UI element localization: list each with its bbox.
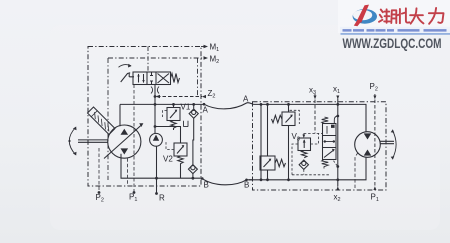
charge pump bbox=[150, 133, 163, 146]
svg-text:V2: V2 bbox=[163, 155, 173, 164]
svg-text:R: R bbox=[159, 194, 165, 203]
pilot x3 (dashed) bbox=[314, 94, 316, 133]
valve DV1 centre cell blocked ports bbox=[150, 72, 153, 85]
logo separator rule bbox=[341, 33, 450, 34]
bypass line bbox=[260, 104, 262, 179]
node A-charge bbox=[154, 103, 157, 106]
logo tiny contact dashes bbox=[343, 29, 447, 32]
pump rotation arc bbox=[69, 128, 75, 155]
FV bottom spring bbox=[322, 160, 329, 169]
pump variable displacement arrow bbox=[104, 125, 142, 159]
svg-text:WWW.ZGDLQC.COM: WWW.ZGDLQC.COM bbox=[343, 36, 442, 51]
pump shaft bbox=[78, 140, 108, 142]
node A-V1 bbox=[172, 103, 175, 106]
orifice on charge line bbox=[151, 87, 159, 94]
node on charge line at Z2 bbox=[154, 95, 157, 98]
M2 arrow bbox=[204, 56, 209, 59]
check valve CV2 (to B) bbox=[188, 165, 197, 174]
svg-text:B: B bbox=[204, 181, 209, 190]
check valve CV3 bbox=[299, 160, 308, 169]
RV2 spring bbox=[275, 159, 286, 166]
relief valve V1 bbox=[173, 104, 175, 107]
motor case drain (dashed) bbox=[355, 153, 358, 189]
valve DV1 lever bbox=[121, 73, 134, 82]
port M2 drain line (dash-dot) bbox=[108, 57, 206, 59]
check valve CV1 (to A) bbox=[193, 104, 195, 108]
FV middle cell through path bbox=[324, 141, 336, 143]
pilot line Z2 (dashed, arrow left) bbox=[157, 96, 202, 98]
pump case drain (dashed) bbox=[127, 158, 129, 186]
main line A inside pump unit bbox=[120, 104, 204, 126]
svg-text:B: B bbox=[244, 181, 249, 190]
node A-x1 bbox=[336, 103, 339, 106]
valve drain line to M ports (dash-dot) bbox=[147, 47, 149, 73]
logo red brush stroke bbox=[357, 5, 370, 23]
node A-RV1 bbox=[287, 103, 290, 106]
hose A bbox=[204, 103, 254, 109]
inner assembly enclosure (dash-dot) bbox=[107, 58, 109, 180]
relief valve V2 bbox=[174, 143, 187, 156]
branch to V2 bbox=[155, 127, 181, 144]
FV top cell plug mark bbox=[331, 125, 335, 128]
relief valve RV1 bbox=[282, 112, 295, 126]
flushing valve FV body bbox=[323, 124, 337, 160]
char da bbox=[410, 8, 423, 23]
node B-RV2 bbox=[266, 178, 269, 181]
node A-check bbox=[192, 103, 195, 106]
RV1 spring bbox=[272, 115, 283, 122]
V2 spring bbox=[178, 156, 183, 178]
node B-x2 bbox=[336, 178, 339, 181]
V1 drain mark bbox=[184, 121, 189, 127]
FV top spring bbox=[322, 117, 329, 123]
main line B / R line bbox=[121, 154, 202, 178]
logo D swoosh blue crescent bbox=[353, 9, 377, 24]
relief valve RV1 feed bbox=[288, 104, 290, 179]
pilot x1/x2 line bbox=[337, 99, 339, 187]
svg-text:A: A bbox=[243, 95, 249, 104]
V3 spring bbox=[302, 151, 307, 158]
V3 left pilot loop (dashed) bbox=[292, 144, 330, 175]
valve DV1 spring bbox=[171, 74, 180, 83]
relief RV2 feed bbox=[267, 104, 269, 179]
char bei bbox=[396, 8, 409, 23]
line B to motor bbox=[249, 157, 366, 180]
motor rotation arc bbox=[393, 131, 397, 159]
x2 arrow bbox=[336, 186, 339, 190]
logo tiny contact strip background bbox=[340, 27, 450, 35]
RV1 pilot (dashed) bbox=[290, 110, 300, 124]
logo chinese characters 湖北大力 (drawn strokes) bbox=[379, 8, 444, 24]
V3 pilot from x3 (dashed, arrow down) bbox=[303, 133, 305, 136]
valve DV1 right cell crossed bbox=[158, 74, 170, 84]
drain P2/P1 line (dashed) bbox=[374, 94, 376, 188]
char hu (moon) bbox=[391, 10, 396, 23]
motor unit enclosure (dash-dot) bbox=[253, 102, 387, 190]
logo panel background bbox=[338, 0, 450, 33]
node B-RV1 bbox=[287, 178, 290, 181]
V1 spring bbox=[171, 121, 176, 131]
char hu (water radical) bbox=[379, 10, 383, 22]
pump unit enclosure (dash-dot) bbox=[88, 47, 201, 187]
hose B bbox=[202, 178, 253, 184]
pilot port P2 line (dashed) bbox=[98, 148, 100, 193]
valve DV1 lever curved arrow bbox=[119, 65, 132, 68]
reducing valve V3 bbox=[298, 138, 311, 151]
motor shaft bbox=[380, 141, 394, 143]
port R stub bbox=[155, 192, 158, 195]
valve DV1 left cell flow arrows bbox=[139, 74, 144, 83]
relief valve RV2 bbox=[260, 156, 275, 170]
node A-RV2 bbox=[266, 103, 269, 106]
FV pilot hook from x1 bbox=[334, 116, 338, 124]
char hu (middle) bbox=[384, 9, 389, 22]
V1 pilot (dashed) bbox=[163, 111, 168, 118]
FV outlet dashes to x2 line bbox=[334, 161, 338, 167]
svg-text:A: A bbox=[203, 106, 209, 115]
node B-bypass bbox=[260, 178, 263, 181]
V3 right pilot (dashed) bbox=[311, 133, 319, 144]
charge feed line between check valves bbox=[192, 118, 195, 164]
directional valve DV1 body bbox=[133, 72, 171, 85]
M1 arrow bbox=[204, 45, 209, 48]
hydraulic motor bbox=[355, 132, 381, 158]
servo cylinder (tilted) bbox=[88, 107, 116, 135]
FV bottom cell diagonal bbox=[324, 150, 334, 158]
charge pump suction line bbox=[156, 146, 158, 193]
inner enclosure right edge bbox=[197, 58, 199, 96]
char li bbox=[429, 8, 444, 24]
node A-bypass bbox=[260, 103, 263, 106]
main pump bbox=[108, 125, 141, 158]
line A to motor bbox=[254, 104, 367, 131]
charge line from valve bbox=[154, 85, 156, 134]
V2 pilot (dashed) bbox=[166, 141, 174, 150]
pilot port P1 line (dashed) bbox=[133, 85, 135, 193]
svg-text:V1: V1 bbox=[181, 103, 191, 112]
port M1 drain line bbox=[201, 46, 206, 48]
